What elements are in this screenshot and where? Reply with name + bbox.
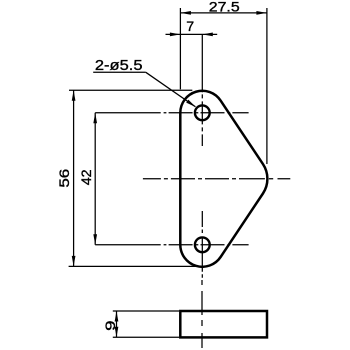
svg-text:9: 9 [103,320,118,331]
svg-text:7: 7 [186,19,194,35]
svg-text:2-ø5.5: 2-ø5.5 [95,58,143,74]
svg-text:56: 56 [57,168,72,187]
svg-text:27.5: 27.5 [209,0,240,15]
svg-text:42: 42 [79,169,94,185]
